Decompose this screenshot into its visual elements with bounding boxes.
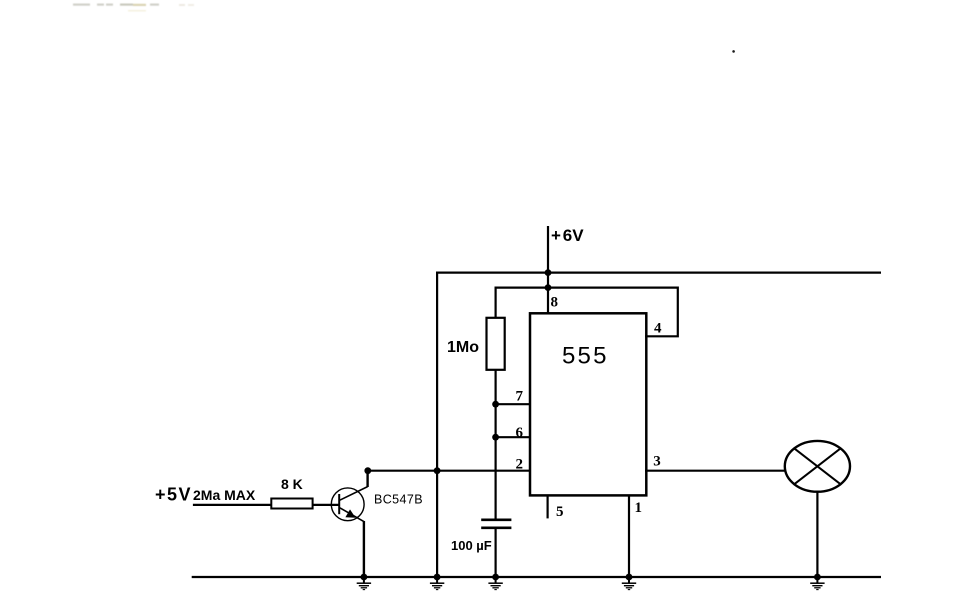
junction dot left branch pin 2 [434,467,441,474]
resistor R2 body [271,499,312,509]
svg-text:1: 1 [635,500,643,516]
svg-text:6: 6 [516,425,524,441]
wire pin 4 [645,287,678,337]
wire left vertical branch [436,272,438,578]
wire capacitor to ground rail [495,528,497,577]
junction dot pin 6 [492,434,499,441]
svg-text:+5V: +5V [155,485,192,505]
junction dot pin 8 rail [545,284,552,291]
junction dot capacitor ground [492,574,499,581]
wire pin 6 stub [496,436,531,438]
svg-text:4: 4 [654,320,662,336]
resistor R1 body [487,318,505,370]
ground symbol pin 1 [622,577,636,590]
junction dot collector pin 2 [364,467,371,474]
faint cropped text artifact top-left [73,4,194,12]
svg-text:100 µF: 100 µF [451,538,492,553]
svg-text:7: 7 [516,389,524,405]
svg-text:3: 3 [653,453,661,469]
lamp L1 [785,441,850,492]
wire top supply rail [436,272,881,274]
wire resistor top feed [495,287,497,320]
junction dot pin 7 [492,401,499,408]
wire pin 7 stub [496,403,531,405]
svg-text:2Ma MAX: 2Ma MAX [193,487,256,503]
ground symbol emitter [357,577,371,590]
svg-text:+6V: +6V [551,226,584,245]
wire +5V input [193,504,271,506]
svg-text:2: 2 [516,456,524,472]
ground symbol capacitor [488,577,502,590]
junction dot left branch ground [434,574,441,581]
junction dot emitter ground [361,574,368,581]
wire resistor bottom to capacitor [495,369,497,521]
wire emitter down [363,521,365,577]
wire pin 3 line [645,470,786,472]
wire bottom ground rail [192,576,881,578]
wire base feed [313,504,340,506]
IC U1 555 body [530,313,646,495]
svg-text:8: 8 [551,295,559,311]
wire lamp to ground [816,492,818,577]
wire pin 8 drop [547,272,549,315]
capacitor C1 top plate [481,518,511,521]
svg-text:BC547B: BC547B [374,492,423,506]
svg-text:8 K: 8 K [281,476,303,492]
capacitor C1 bottom plate [481,526,511,529]
junction dot pin 1 ground [626,574,633,581]
svg-text:5: 5 [556,504,564,520]
wire collector up [366,471,368,487]
wire pin 5 stub [546,495,548,518]
wire +6V supply stub [547,226,549,274]
stray dot artifact [732,50,735,53]
ground symbol left branch [430,577,444,590]
junction dot +6V top rail [545,269,552,276]
svg-text:1Mo: 1Mo [447,339,479,356]
wire second rail pins 8 and 4 [496,287,678,289]
wire pin 1 drop [628,495,630,577]
ground symbol lamp [810,577,824,590]
transistor Q1 BC547B [331,487,367,522]
junction dot lamp ground [814,574,821,581]
wire pin 2 line [368,470,531,472]
svg-text:555: 555 [562,343,609,370]
